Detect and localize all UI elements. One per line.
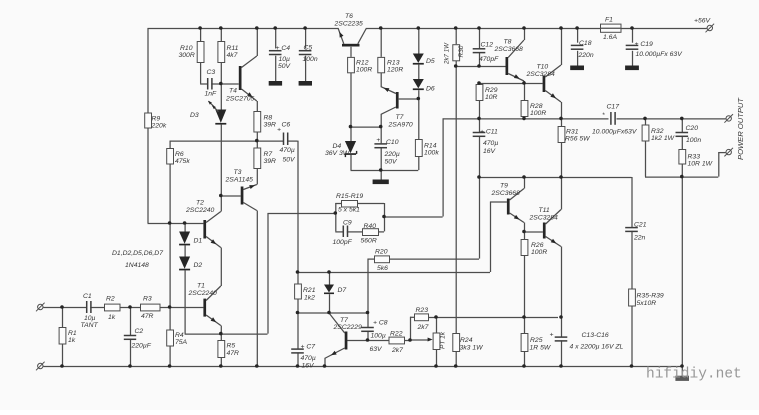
svg-text:10R: 10R [485,94,498,101]
svg-text:R1: R1 [68,330,77,337]
svg-text:2SC2240: 2SC2240 [185,207,215,214]
svg-text:1k2 1W: 1k2 1W [651,135,675,142]
svg-text:T10: T10 [537,64,549,71]
svg-text:36V 3W: 36V 3W [325,150,350,157]
svg-text:100k: 100k [424,150,439,157]
svg-text:R22: R22 [390,331,403,338]
svg-text:hifidiy.net: hifidiy.net [646,367,742,383]
svg-text:R21: R21 [303,287,316,294]
svg-text:T8: T8 [504,39,512,46]
svg-text:T7: T7 [340,317,348,324]
svg-text:POWER OUTPUT: POWER OUTPUT [736,97,745,160]
svg-text:C9: C9 [343,220,352,227]
svg-text:T11: T11 [539,207,550,214]
svg-text:R32: R32 [651,128,664,135]
svg-text:C10: C10 [386,139,399,146]
svg-text:C20: C20 [686,125,699,132]
svg-text:1.6A: 1.6A [603,34,617,41]
svg-text:C12: C12 [481,42,494,49]
svg-text:D1: D1 [194,238,203,245]
svg-text:+ C7: + C7 [301,344,316,351]
svg-text:R26: R26 [531,242,544,249]
svg-text:+ C11: + C11 [480,129,498,136]
svg-text:10R 1W: 10R 1W [688,161,713,168]
svg-text:T7: T7 [396,114,404,121]
svg-text:100µ: 100µ [371,333,386,340]
svg-text:R20: R20 [375,249,388,256]
svg-text:R11: R11 [227,45,239,52]
svg-text:F1: F1 [605,17,613,24]
svg-text:220µF: 220µF [131,343,152,350]
svg-text:5x10R: 5x10R [637,300,657,307]
svg-text:C18: C18 [579,40,592,47]
svg-text:T6: T6 [345,13,353,20]
svg-text:5k6: 5k6 [377,265,388,272]
svg-text:100pF: 100pF [333,239,353,246]
svg-text:2SC3284: 2SC3284 [529,215,559,222]
svg-text:R10: R10 [180,45,193,52]
svg-text:2SC2235: 2SC2235 [334,21,364,28]
svg-text:100R: 100R [530,110,546,117]
svg-text:C5: C5 [304,45,313,52]
svg-text:R31: R31 [566,129,579,136]
svg-text:C21: C21 [634,222,647,229]
svg-text:63V: 63V [370,346,384,353]
svg-text:R15-R19: R15-R19 [336,193,363,200]
svg-text:R28: R28 [530,103,543,110]
svg-text:2SA970: 2SA970 [388,122,413,129]
svg-text:R6: R6 [175,151,184,158]
svg-text:470µ: 470µ [280,147,295,154]
svg-text:75A: 75A [175,339,188,346]
svg-text:T9: T9 [500,183,508,190]
svg-text:+: + [376,137,380,144]
svg-text:R23: R23 [416,307,429,314]
svg-text:D3: D3 [190,112,199,119]
svg-text:R25: R25 [530,337,543,344]
svg-text:220k: 220k [151,123,167,130]
svg-text:2SC3284: 2SC3284 [526,71,556,78]
svg-text:T2: T2 [196,200,204,207]
svg-text:2SA1145: 2SA1145 [225,177,254,184]
svg-text:C13-C16: C13-C16 [582,332,609,339]
svg-text:+: + [550,332,554,339]
svg-text:560R: 560R [361,238,377,245]
svg-text:R4: R4 [175,332,184,339]
svg-text:R14: R14 [424,143,437,150]
svg-text:16V: 16V [302,363,316,370]
svg-text:C17: C17 [607,104,620,111]
svg-text:2SC2240: 2SC2240 [188,290,218,297]
svg-text:C6: C6 [282,122,291,129]
svg-text:10.000µFx 63V: 10.000µFx 63V [636,51,684,58]
svg-text:100n: 100n [303,56,318,63]
svg-text:PT 1k: PT 1k [440,331,447,349]
svg-text:470pF: 470pF [479,56,499,63]
svg-text:120R: 120R [387,67,403,74]
svg-text:+ C8: + C8 [373,320,388,327]
svg-text:D2: D2 [194,262,203,269]
svg-text:R7: R7 [264,151,273,158]
svg-text:47R: 47R [227,350,240,357]
svg-text:220µ: 220µ [384,151,400,158]
svg-text:C1: C1 [83,293,92,300]
svg-text:R33: R33 [688,154,701,161]
svg-text:R24: R24 [460,337,473,344]
svg-text:47R: 47R [141,313,154,320]
svg-text:D7: D7 [338,287,347,294]
svg-text:39R: 39R [264,158,277,165]
svg-text:2k7: 2k7 [391,347,403,354]
svg-text:50V: 50V [385,159,399,166]
svg-text:1nF: 1nF [205,91,218,98]
svg-text:475k: 475k [175,158,190,165]
svg-text:T3: T3 [234,169,242,176]
svg-text:4 x 2200µ 16V ZL: 4 x 2200µ 16V ZL [570,344,624,351]
svg-text:TANT: TANT [81,322,99,329]
svg-text:+56V: +56V [694,18,712,25]
svg-text:10µ: 10µ [84,315,96,322]
svg-text:50V: 50V [278,63,292,70]
svg-text:D5: D5 [426,58,435,65]
svg-text:100R: 100R [531,249,547,256]
svg-text:10µ: 10µ [279,56,291,63]
svg-text:R35-R39: R35-R39 [637,293,664,300]
svg-text:2k7: 2k7 [417,324,429,331]
svg-text:D4: D4 [333,143,342,150]
svg-text:100R: 100R [356,67,372,74]
svg-text:5 x 5k1: 5 x 5k1 [338,207,360,214]
svg-text:470µ: 470µ [483,140,498,147]
svg-text:D1,D2,D5,D6,D7: D1,D2,D5,D6,D7 [112,250,163,257]
svg-text:470µ: 470µ [301,355,316,362]
svg-text:300R: 300R [179,52,195,59]
svg-text:R3: R3 [143,296,152,303]
svg-text:1R 5W: 1R 5W [530,345,551,352]
svg-text:R12: R12 [356,60,369,67]
svg-text:R40: R40 [364,223,377,230]
svg-text:R5: R5 [227,343,236,350]
svg-text:+ C19: + C19 [635,41,654,48]
svg-text:C3: C3 [207,69,216,76]
svg-text:R13: R13 [387,60,400,67]
svg-text:T1: T1 [197,283,205,290]
svg-text:2SC2229: 2SC2229 [333,324,363,331]
svg-text:R29: R29 [485,87,498,94]
svg-text:1k: 1k [108,314,116,321]
svg-text:1k: 1k [68,337,76,344]
svg-text:4k7: 4k7 [227,52,238,59]
svg-text:1N4148: 1N4148 [125,262,149,269]
svg-text:220n: 220n [578,52,594,59]
svg-text:2SC3668: 2SC3668 [491,190,521,197]
svg-text:39R: 39R [264,122,277,129]
svg-text:22n: 22n [633,235,646,242]
svg-text:R56 5W: R56 5W [565,136,590,143]
svg-text:R8: R8 [264,115,273,122]
svg-text:100n: 100n [686,137,701,144]
svg-text:R30: R30 [458,45,465,57]
svg-text:3k3 1W: 3k3 1W [460,345,484,352]
svg-text:2SC3668: 2SC3668 [494,46,524,53]
svg-text:2k7 1W: 2k7 1W [444,42,451,65]
svg-text:*: * [602,112,605,119]
svg-text:D6: D6 [426,86,435,93]
svg-text:R9: R9 [152,116,161,123]
svg-text:T4: T4 [229,88,237,95]
svg-text:50V: 50V [283,157,297,164]
svg-text:+: + [277,127,281,134]
svg-text:2SC2705: 2SC2705 [225,96,255,103]
svg-text:+ C4: + C4 [276,45,291,52]
svg-text:16V: 16V [483,148,497,155]
svg-text:R2: R2 [106,296,115,303]
svg-text:C2: C2 [135,328,144,335]
svg-text:10.000µFx63V: 10.000µFx63V [592,129,638,136]
svg-text:1k2: 1k2 [304,295,315,302]
